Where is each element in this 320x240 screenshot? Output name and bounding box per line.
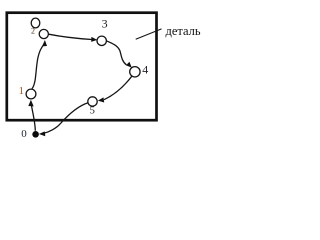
arrowhead into node 4: [126, 62, 132, 68]
arrowhead into node 1: [28, 100, 33, 107]
node 1 circle: [26, 89, 36, 99]
svg-text:0: 0: [21, 128, 27, 140]
wire edge 2-3: [49, 34, 92, 39]
extra circle above node 2: [31, 18, 40, 28]
node 0 filled dot: [32, 131, 39, 138]
arrowhead into node 5: [98, 97, 104, 102]
svg-text:деталь: деталь: [166, 24, 201, 38]
pointer line to label: [136, 29, 162, 39]
svg-text:3: 3: [102, 17, 108, 31]
part outline rectangle: [7, 13, 157, 121]
node 2 circle: [39, 29, 48, 38]
wire edge 1-2: [32, 45, 44, 89]
arrowhead into node 0: [39, 131, 45, 136]
node 4 circle: [130, 67, 140, 77]
wire edge 4-5: [104, 76, 132, 100]
wire edge 5-0: [44, 103, 89, 134]
node 5 circle: [88, 97, 97, 106]
arrowhead into node 2: [42, 40, 47, 46]
arrowhead into node 3: [91, 37, 97, 42]
wire edge 3-4: [107, 41, 127, 65]
wire edge 0-1: [32, 106, 36, 131]
svg-text:2: 2: [31, 26, 35, 35]
svg-text:1: 1: [19, 86, 24, 97]
svg-text:5: 5: [90, 106, 95, 117]
svg-text:4: 4: [142, 62, 148, 76]
node 3 circle: [97, 36, 106, 45]
